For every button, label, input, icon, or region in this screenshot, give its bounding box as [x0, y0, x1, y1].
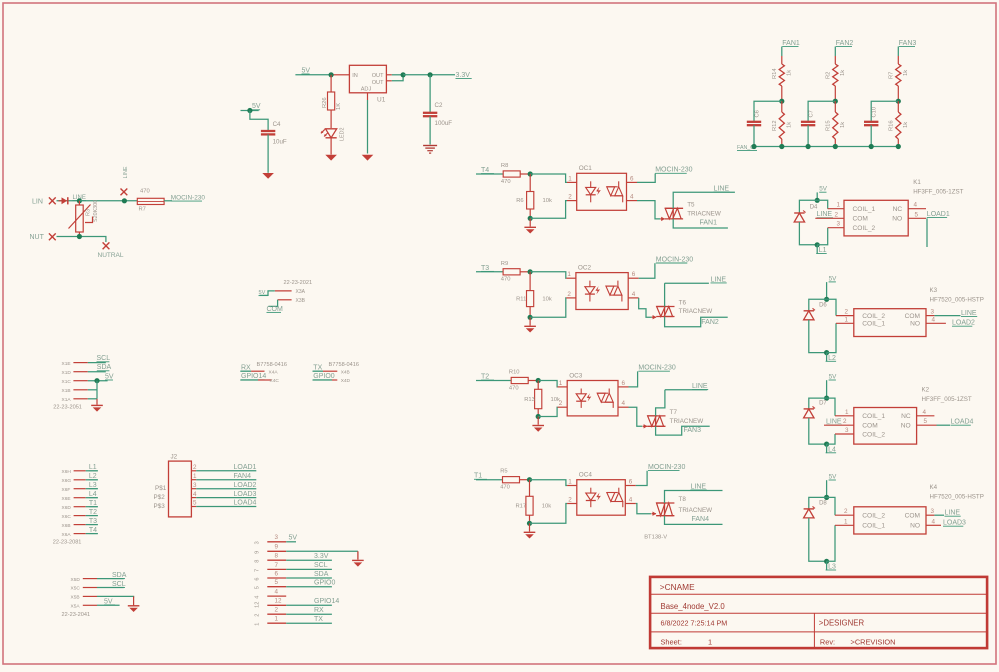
svg-text:LOAD1: LOAD1 [927, 211, 950, 218]
J2 box [169, 461, 192, 517]
wire coil- to pin3 (K1) [817, 228, 828, 245]
svg-text:R7: R7 [139, 207, 146, 213]
wire J2 LOAD4 [196, 506, 256, 508]
wire FAN_G rail [754, 146, 898, 148]
svg-text:FAN4: FAN4 [692, 516, 710, 523]
wire to ground (conn 2051) [96, 399, 98, 405]
svg-text:MOCIN-230: MOCIN-230 [655, 167, 692, 174]
diode D (K1) [799, 200, 817, 213]
wire SDA (2041) [97, 578, 124, 580]
svg-text:R16: R16 [888, 120, 894, 131]
svg-text:C7: C7 [809, 110, 815, 117]
svg-text:LINE: LINE [714, 185, 730, 192]
net label L stub (K2) [826, 444, 828, 453]
svg-text:SDA: SDA [314, 571, 329, 578]
wire T4 [86, 533, 98, 535]
svg-text:6: 6 [629, 479, 633, 486]
pin 1 of OC1 [567, 181, 577, 183]
capacitor C7 [801, 121, 815, 123]
wire FAN2 to R2 [834, 47, 836, 57]
wire L4 [86, 497, 98, 499]
wire FAN2 row2 [665, 317, 728, 327]
ground (conn 2051) [91, 404, 103, 406]
svg-text:T1: T1 [89, 500, 97, 507]
svg-text:OUT: OUT [372, 80, 384, 86]
svg-text:22-23-2081: 22-23-2081 [53, 540, 82, 546]
optocoupler OC1 [577, 173, 627, 210]
svg-text:6/8/2022 7:25:14 PM: 6/8/2022 7:25:14 PM [661, 619, 728, 628]
wire X3A to 5V [260, 291, 275, 296]
wire T2 [86, 515, 98, 517]
pin R8 right [520, 173, 530, 175]
svg-text:4: 4 [630, 194, 634, 201]
svg-text:6: 6 [255, 577, 261, 580]
svg-text:5: 5 [193, 500, 197, 507]
wire C7 to rail [807, 125, 809, 146]
wire T1 [86, 506, 98, 508]
wire J2 LOAD3 [196, 497, 256, 499]
svg-text:Sheet:: Sheet: [661, 638, 682, 647]
wire FAN1 to R14 [781, 47, 783, 57]
svg-text:5: 5 [255, 586, 261, 589]
diode D (K2) [809, 398, 827, 409]
svg-text:SCL: SCL [112, 581, 126, 588]
relay K3 box [854, 309, 926, 337]
pin ADJ of U1 [367, 93, 369, 100]
svg-text:LINE: LINE [817, 211, 833, 218]
resistor R9 [503, 269, 520, 275]
wire LOAD1 down [926, 218, 928, 247]
wire pin3 to LINE (K3) [934, 315, 960, 317]
svg-text:LOAD3: LOAD3 [943, 520, 966, 527]
svg-text:LOAD4: LOAD4 [234, 500, 257, 507]
pin X4D [332, 379, 337, 381]
ground under C2 (earth) [423, 145, 437, 147]
svg-text:LOAD1: LOAD1 [234, 464, 257, 471]
svg-text:ADJ: ADJ [361, 87, 372, 93]
svg-text:U1: U1 [377, 97, 386, 104]
resistor R26 [328, 92, 335, 110]
resistor R6 [529, 174, 531, 192]
svg-text:1k: 1k [903, 70, 909, 76]
pin 1 of OC2 [566, 277, 576, 279]
resistor R7 [896, 64, 901, 86]
svg-text:COIL_1: COIL_1 [862, 321, 885, 328]
triac T6 [656, 306, 674, 308]
wire 5V (2041) [97, 604, 120, 606]
wire header pin 7 [286, 568, 332, 570]
svg-text:7: 7 [275, 562, 279, 569]
svg-text:>CNAME: >CNAME [660, 582, 695, 592]
svg-text:X6A: X6A [62, 532, 72, 538]
svg-text:TRIACNEW: TRIACNEW [679, 507, 713, 514]
svg-text:FAN4: FAN4 [234, 473, 252, 480]
svg-text:5V: 5V [104, 598, 113, 605]
svg-text:T5: T5 [687, 201, 695, 208]
node coil- junction (K2) [824, 442, 829, 447]
svg-text:NO: NO [910, 321, 920, 328]
svg-text:TRIACNEW: TRIACNEW [687, 210, 721, 217]
pin R13 bottom [537, 409, 539, 417]
wire pin4 to triac gate [629, 407, 643, 426]
wire 5V to coil node (K2) [826, 380, 828, 398]
diode D (K3) [809, 299, 827, 311]
svg-text:2: 2 [845, 309, 849, 316]
wire header pin 6 [286, 577, 332, 579]
plug arrow symbol [59, 200, 62, 202]
svg-text:K1: K1 [913, 179, 921, 186]
svg-text:R13: R13 [524, 397, 535, 403]
pin 2 COM (K1) [815, 217, 844, 219]
wire pin4 to triac gate [636, 504, 651, 514]
svg-text:COM: COM [905, 313, 920, 320]
pin 2 COIL_2 (K3) [836, 315, 854, 317]
wire header pin9 to ground [357, 551, 359, 559]
svg-text:10uF: 10uF [273, 139, 287, 146]
wire J2 LOAD2 [196, 488, 256, 490]
node 5V junction (conn) [94, 378, 99, 383]
svg-text:L3: L3 [828, 564, 836, 571]
svg-text:NC: NC [893, 206, 903, 213]
svg-text:NO: NO [901, 423, 911, 430]
node junction T1 [527, 477, 532, 482]
wire L2 [86, 479, 98, 481]
wire LIN to fuse node [79, 200, 137, 202]
pin 3 of J2 [191, 488, 196, 490]
wire LINE row4 [665, 491, 723, 504]
svg-text:BT138-V: BT138-V [644, 535, 667, 541]
wire header pin 12 [286, 604, 332, 606]
svg-text:OC3: OC3 [569, 372, 583, 379]
svg-text:COIL_2: COIL_2 [862, 431, 885, 438]
svg-text:HF3FF_005-1ZST: HF3FF_005-1ZST [922, 396, 972, 403]
pin R26 top [330, 75, 332, 92]
title block row line 3 [650, 631, 987, 633]
svg-text:NUTRAL: NUTRAL [98, 252, 124, 259]
svg-text:5V: 5V [259, 290, 266, 296]
svg-text:NUT: NUT [30, 234, 45, 241]
svg-text:C2: C2 [435, 102, 443, 109]
svg-text:MOCIN-230: MOCIN-230 [656, 256, 693, 263]
svg-text:FAN2: FAN2 [701, 319, 719, 326]
pin 6 of OC1 [627, 181, 638, 183]
capacitor C10 [864, 121, 878, 123]
pin 2 of J2 [191, 470, 196, 472]
wire 5V to coil node (K3) [826, 282, 828, 299]
wire C2 to ground [429, 116, 431, 144]
svg-text:P$1: P$1 [155, 485, 167, 492]
svg-text:LINE: LINE [961, 310, 977, 317]
wire OUT1 to node [392, 74, 403, 76]
pin R5 right [520, 479, 530, 481]
svg-text:9: 9 [275, 544, 279, 551]
wire coil- to pin3 (K2) [827, 434, 835, 444]
svg-text:4: 4 [629, 497, 633, 504]
node junction T2 [536, 378, 541, 383]
svg-text:Base_4node_V2.0: Base_4node_V2.0 [661, 602, 726, 611]
resistor R13 [537, 381, 539, 390]
wire TX [313, 370, 324, 372]
svg-text:GPIO14: GPIO14 [241, 373, 266, 380]
node LINE-fuse junction [122, 198, 127, 203]
svg-text:COIL_2: COIL_2 [862, 313, 885, 320]
svg-text:22-23-2021: 22-23-2021 [284, 280, 313, 286]
svg-text:1k: 1k [840, 122, 846, 128]
svg-text:1k: 1k [787, 70, 793, 76]
pin 2 of OC4 [567, 503, 577, 505]
svg-text:HF3FF_005-1ZST: HF3FF_005-1ZST [913, 189, 963, 196]
node junction T3 [528, 269, 533, 274]
svg-text:T1: T1 [474, 473, 482, 480]
svg-text:X5A: X5A [71, 604, 81, 610]
wire ground junction to pin2 [530, 504, 568, 524]
relay K4 box [854, 507, 926, 534]
node coil+ junction (K1) [815, 198, 820, 203]
rail junction [833, 144, 838, 149]
wire coil- to pin1 (K3) [827, 323, 836, 352]
wire pin6 to MOCIN-230 [639, 263, 655, 278]
LED LED2 [326, 129, 337, 138]
svg-text:COM: COM [905, 513, 920, 520]
wire coil+ to pin2 (K4) [827, 497, 835, 515]
svg-text:LINE: LINE [123, 166, 129, 178]
svg-text:T7: T7 [670, 409, 678, 416]
no-connect X at NUTRAL [103, 242, 110, 249]
rail junction [896, 144, 901, 149]
svg-text:X6D: X6D [62, 505, 72, 511]
svg-text:SCL: SCL [97, 355, 111, 362]
pin 1 of J2 [191, 479, 196, 481]
node FAN1 junction [779, 99, 784, 104]
svg-text:10k: 10k [542, 504, 551, 510]
wire FAN3 to R7 [897, 47, 899, 57]
svg-text:MOCIN-230: MOCIN-230 [648, 464, 685, 471]
wire L3 [86, 488, 98, 490]
wire T1 input [476, 479, 503, 481]
svg-text:2: 2 [559, 400, 563, 407]
svg-text:COIL_1: COIL_1 [862, 523, 885, 530]
svg-text:LINE: LINE [826, 418, 842, 425]
resistor R16 [897, 101, 899, 112]
svg-text:X6G: X6G [62, 478, 72, 484]
ground (header) [352, 559, 364, 561]
node junction T4 [528, 171, 533, 176]
wire C4 to ground [267, 134, 269, 172]
svg-text:470: 470 [501, 277, 511, 283]
ground under ADJ [362, 155, 374, 161]
svg-text:FAN3: FAN3 [899, 40, 917, 47]
svg-text:X5D: X5D [71, 577, 81, 583]
svg-text:2: 2 [567, 291, 571, 298]
svg-text:K2: K2 [922, 387, 930, 394]
svg-text:X1E: X1E [62, 361, 71, 367]
svg-text:LOAD2: LOAD2 [234, 482, 257, 489]
wire pin5 row [88, 398, 97, 400]
wire 5V row [88, 380, 108, 382]
triac T7 [647, 415, 665, 417]
svg-text:3: 3 [931, 508, 935, 515]
diode D (K4) [809, 497, 827, 509]
wire T4 input [476, 173, 503, 175]
svg-text:R17: R17 [516, 504, 527, 510]
wire pin5 to LOAD4 (K2) [937, 424, 951, 426]
wire 5V to coil node (K4) [826, 480, 828, 497]
svg-text:4: 4 [923, 409, 927, 416]
wire LIN [57, 200, 80, 202]
svg-text:5: 5 [915, 211, 919, 218]
svg-text:X4D: X4D [341, 378, 351, 384]
svg-text:LED2: LED2 [340, 128, 346, 142]
svg-text:NC: NC [901, 413, 911, 420]
wire pin4 to triac gate [639, 298, 652, 317]
svg-text:22-23-2051: 22-23-2051 [53, 405, 82, 411]
svg-text:100uF: 100uF [435, 120, 453, 127]
title block outer border [650, 577, 987, 648]
wire LINE row2 [665, 282, 709, 284]
node coil- junction (K4) [824, 559, 829, 564]
svg-text:D6: D6 [819, 302, 827, 308]
svg-text:X3B: X3B [296, 298, 306, 304]
wire pin6 to MOCIN-230 [636, 471, 647, 486]
svg-text:5V: 5V [105, 373, 114, 380]
triac T8 [656, 502, 674, 504]
wire 3.3V node to C2 [429, 75, 431, 112]
svg-text:3: 3 [837, 221, 841, 228]
svg-text:RX: RX [241, 365, 251, 372]
wire RX [240, 370, 251, 372]
node 5V junction [329, 72, 334, 77]
wire OUT2 up to node [392, 75, 403, 81]
wire LED2 to ground [330, 138, 332, 155]
svg-text:3.3V: 3.3V [314, 553, 329, 560]
svg-text:1: 1 [568, 175, 572, 182]
svg-text:T3: T3 [89, 518, 97, 525]
svg-text:5V: 5V [829, 275, 838, 282]
node 3.3V junction [428, 72, 433, 77]
svg-text:COIL_2: COIL_2 [862, 513, 885, 520]
svg-text:LOAD3: LOAD3 [234, 491, 257, 498]
svg-text:7: 7 [255, 569, 261, 572]
wire coil+ to pin1 (K1) [817, 200, 828, 208]
wire pin6 to MOCIN-230 [629, 371, 638, 387]
pin 1 COIL_1 (K1) [828, 208, 844, 210]
pin R10 right [528, 380, 538, 382]
svg-text:OUT: OUT [372, 73, 384, 79]
wire R26 to LED2 [330, 110, 332, 128]
wire FAN3 row3 [656, 426, 710, 435]
node LIN junction [77, 198, 82, 203]
wire 5V to U1 [334, 74, 350, 76]
wire gnd bus (conn) [96, 381, 98, 399]
svg-text:HF7520_005-HSTP: HF7520_005-HSTP [930, 494, 984, 501]
svg-text:OC2: OC2 [578, 264, 592, 271]
net label L stub (K4) [826, 561, 828, 570]
pin 2 of OC2 [566, 297, 576, 299]
svg-text:GPIO0: GPIO0 [314, 580, 336, 587]
pin 5 NO (K1) [908, 217, 926, 219]
svg-text:470: 470 [501, 179, 511, 185]
ground under C4 [262, 173, 274, 179]
optocoupler OC4 [577, 480, 626, 516]
wire ground junction to pin2 [530, 201, 567, 219]
node 5V C4 junction [247, 108, 252, 113]
wire junction to pin1 [530, 272, 566, 278]
relay K2 box [854, 408, 917, 445]
svg-text:LOAD4: LOAD4 [951, 419, 974, 426]
resistor R5 [503, 477, 520, 483]
svg-text:2: 2 [568, 194, 572, 201]
wire SCL [88, 362, 106, 364]
svg-text:C6: C6 [755, 110, 761, 117]
svg-text:GPIO14: GPIO14 [314, 598, 339, 605]
svg-text:4: 4 [622, 400, 626, 407]
pin X4C [258, 379, 272, 381]
node FAN3 junction [896, 99, 901, 104]
svg-text:GPIO0: GPIO0 [313, 373, 335, 380]
svg-text:X6C: X6C [62, 514, 72, 520]
pin R6 bottom [529, 209, 531, 218]
pin 4 of OC4 [625, 503, 636, 505]
wire T3 input [476, 271, 503, 273]
resistor R8 [503, 171, 520, 177]
pin 6 of OC2 [628, 277, 639, 279]
wire coil+ to pin2 (K3) [827, 299, 836, 315]
svg-text:L1: L1 [819, 247, 827, 254]
pin 3 COM (K3) [926, 315, 934, 317]
wire junction to pin1 [530, 480, 568, 486]
svg-text:R12: R12 [772, 120, 778, 131]
pin 6 of OC3 [618, 386, 629, 388]
svg-text:LINE: LINE [691, 483, 707, 490]
node coil- junction (K1) [815, 242, 820, 247]
svg-text:4: 4 [932, 316, 936, 323]
title block column divider [813, 613, 815, 648]
wire header pin 3 [286, 541, 296, 543]
optocoupler OC2 [576, 273, 628, 310]
wire junction to C7 [808, 101, 835, 121]
svg-text:T4: T4 [89, 527, 97, 534]
svg-text:LINE: LINE [692, 383, 708, 390]
svg-text:1k: 1k [787, 122, 793, 128]
pin 3 COM (K4) [926, 514, 934, 516]
svg-text:X1C: X1C [62, 379, 72, 385]
svg-text:LINE: LINE [945, 510, 961, 517]
pin 4 of OC3 [618, 406, 629, 408]
svg-text:COM: COM [853, 216, 868, 223]
svg-text:COIL_1: COIL_1 [853, 206, 876, 213]
svg-text:1: 1 [568, 479, 572, 486]
wire header pin 5 [286, 586, 332, 588]
wire 3.3V rail [403, 74, 455, 76]
pin R11 bottom [529, 307, 531, 318]
svg-text:R15: R15 [825, 120, 831, 131]
svg-text:12: 12 [275, 598, 283, 605]
wire header pin 9 [286, 550, 358, 552]
svg-text:T2: T2 [89, 509, 97, 516]
svg-text:6: 6 [630, 175, 634, 182]
svg-text:X3A: X3A [296, 289, 306, 295]
pin 4 NC (K2) [917, 415, 935, 417]
svg-text:Rev:: Rev: [820, 638, 835, 647]
svg-text:R8: R8 [501, 163, 508, 169]
svg-text:X1A: X1A [62, 397, 72, 403]
pin OUT1 of U1 [386, 74, 391, 76]
svg-text:IN: IN [352, 73, 358, 79]
fuse R7 [137, 198, 164, 204]
svg-text:R3: R3 [86, 209, 92, 216]
svg-text:L1: L1 [89, 464, 97, 471]
svg-text:R10: R10 [509, 370, 520, 376]
